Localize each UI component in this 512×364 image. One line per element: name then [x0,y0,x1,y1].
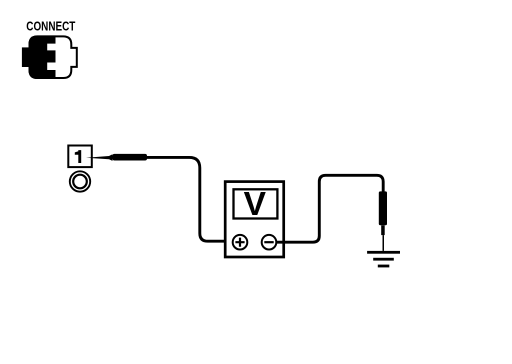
ground [367,251,400,268]
voltmeter U1 body [225,182,284,257]
svg-text:CONNECT: CONNECT [26,20,75,34]
probe P1 needle [86,154,113,161]
svg-text:V: V [244,186,267,223]
terminal eyelet [70,171,90,191]
wire probe P1 to voltmeter + [147,157,234,241]
probe P2 body [379,191,387,225]
probe P2 ferrule [381,225,385,235]
probe P2 tip [383,235,385,251]
connector icon [22,35,77,79]
terminal minus [262,235,277,250]
voltmeter display [234,189,278,218]
probe P1 handle [113,154,148,161]
wire voltmeter - to probe P2 [276,175,383,242]
terminal plus [233,235,248,250]
terminal box 1 [68,146,92,168]
